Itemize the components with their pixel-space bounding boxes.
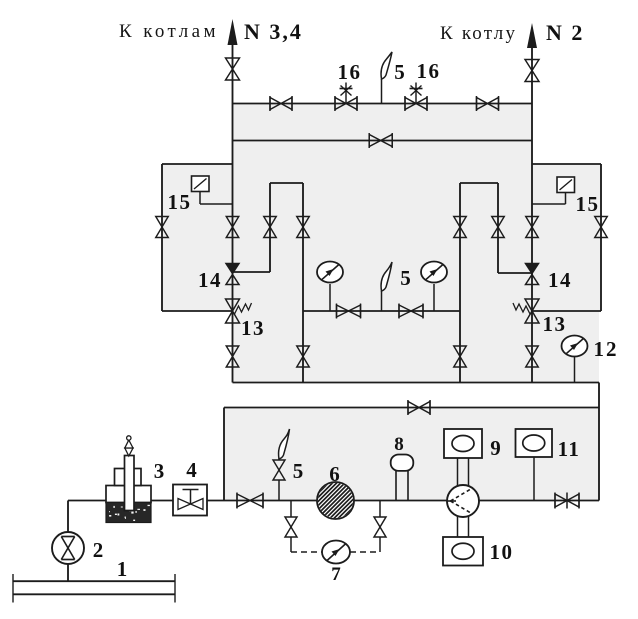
pipe riser to boilers N3,4 (upper) bbox=[232, 58, 234, 104]
right downcomer pipe bbox=[598, 383, 600, 501]
right loop bottom pipe bbox=[532, 310, 601, 312]
closed valve on bottom main right bbox=[555, 493, 579, 509]
dp gauge right impulse line bbox=[350, 551, 380, 553]
right riser pipe middle bbox=[531, 104, 533, 383]
dp gauge left impulse line bbox=[291, 551, 322, 553]
instrument 15 left bbox=[192, 176, 233, 204]
right branch top pipe bbox=[460, 182, 498, 184]
dp gauge right tap pipe bbox=[374, 501, 386, 553]
check valve 14 right bbox=[526, 264, 539, 285]
label 13 left bbox=[241, 316, 265, 340]
left branch riser pipe bbox=[269, 183, 271, 272]
svg-text:10: 10 bbox=[490, 540, 514, 564]
label К котлу bbox=[440, 23, 517, 44]
right loop top pipe bbox=[532, 163, 601, 165]
valve on middle line left bbox=[337, 304, 361, 319]
svg-text:15: 15 bbox=[576, 192, 600, 216]
left loop top pipe bbox=[162, 163, 233, 165]
svg-text:16: 16 bbox=[338, 60, 362, 84]
svg-text:4: 4 bbox=[186, 458, 198, 482]
bottom rect left pipe bbox=[223, 408, 225, 501]
background shading of enclosed regions bbox=[162, 104, 601, 501]
pressure gauge left bbox=[317, 262, 343, 283]
flow arrow to boilers N3,4 bbox=[228, 19, 238, 58]
right loop vertical pipe bbox=[600, 164, 602, 311]
valve on left riser lower bbox=[226, 346, 239, 367]
label 6 bbox=[329, 462, 341, 486]
instrument 11 stem bbox=[533, 457, 535, 501]
valve on second header bbox=[369, 133, 392, 148]
label 12 bbox=[594, 337, 619, 361]
label 9 bbox=[490, 436, 502, 460]
right branch down pipe bbox=[497, 183, 499, 273]
svg-text:11: 11 bbox=[558, 437, 581, 461]
label N 3,4 bbox=[244, 19, 303, 44]
label 2 bbox=[93, 538, 105, 562]
pressure gauge right bbox=[421, 262, 447, 283]
label 1 bbox=[117, 557, 129, 581]
filter 6 bbox=[283, 481, 389, 521]
pipe pump to tank bbox=[67, 565, 69, 582]
svg-text:16: 16 bbox=[417, 59, 441, 83]
thermometer stem middle bbox=[381, 291, 383, 311]
valve on right branch riser bbox=[492, 217, 505, 238]
pipe riser to boiler N2 (upper) bbox=[531, 60, 533, 104]
svg-text:8: 8 bbox=[394, 434, 405, 455]
motor valve 16 right bbox=[405, 83, 427, 112]
svg-text:5: 5 bbox=[400, 266, 412, 290]
instrument box 10 bbox=[443, 537, 483, 566]
second header pipe bbox=[233, 140, 533, 142]
svg-text:12: 12 bbox=[594, 337, 619, 361]
valve on top header right bbox=[477, 96, 499, 111]
svg-text:3: 3 bbox=[154, 459, 166, 483]
thermometer stub bottom bbox=[273, 458, 285, 501]
left riser pipe middle bbox=[232, 104, 234, 383]
instrument box 11 bbox=[516, 429, 553, 457]
flow arrow to boiler N2 bbox=[527, 23, 537, 60]
label 11 bbox=[558, 437, 581, 461]
label 5 middle bbox=[400, 266, 412, 290]
label 5 bottom bbox=[293, 459, 305, 483]
label 13 right bbox=[543, 312, 567, 336]
left gauge branch pipe bbox=[302, 183, 304, 383]
label 4 bbox=[186, 458, 198, 482]
pump 2 bbox=[52, 532, 84, 564]
label 5 top bbox=[394, 60, 406, 84]
label 8 bbox=[394, 434, 405, 455]
pipe pump to main line bbox=[67, 501, 69, 533]
svg-text:N 2: N 2 bbox=[546, 20, 584, 45]
tank 1 bbox=[13, 574, 175, 603]
valve on right gauge branch upper bbox=[454, 217, 467, 238]
flow meter bbox=[447, 485, 479, 517]
right branch riser pipe bbox=[459, 183, 461, 311]
svg-text:1: 1 bbox=[117, 557, 129, 581]
svg-text:5: 5 bbox=[394, 60, 406, 84]
motor valve 16 left bbox=[335, 83, 357, 112]
svg-text:13: 13 bbox=[241, 316, 265, 340]
svg-text:2: 2 bbox=[93, 538, 105, 562]
label 7 bbox=[331, 564, 342, 585]
valve on left loop bbox=[156, 217, 169, 238]
instrument box 9 bbox=[444, 429, 482, 458]
sensor 8 bbox=[391, 455, 414, 501]
thermometer 5 flag bottom bbox=[279, 429, 290, 459]
svg-text:15: 15 bbox=[168, 190, 192, 214]
dp gauge 7 bbox=[322, 541, 350, 564]
label 10 bbox=[490, 540, 514, 564]
valve on left riser bbox=[226, 217, 239, 238]
bottom main pipe bbox=[68, 500, 599, 502]
pressure gauge 12 bbox=[562, 336, 588, 357]
middle instrument pipe bbox=[303, 310, 460, 312]
thermometer 5 flag on top header bbox=[381, 52, 392, 79]
valve on right gauge branch lower bbox=[454, 311, 467, 383]
valve on bottom main line left bbox=[237, 493, 263, 509]
top header pipe bbox=[233, 103, 533, 105]
svg-text:К котлам: К котлам bbox=[119, 21, 219, 42]
pipe from branch to right riser bbox=[498, 272, 532, 274]
pressure gauge 12 stem bbox=[574, 356, 576, 383]
valve on right loop bbox=[595, 217, 608, 238]
collector pipe bbox=[233, 382, 600, 384]
svg-text:6: 6 bbox=[329, 462, 341, 486]
valve on bottom bypass header bbox=[408, 400, 430, 415]
label 3 bbox=[154, 459, 166, 483]
pressure gauge left stem bbox=[329, 284, 331, 311]
mixing heater 3 bbox=[106, 436, 151, 523]
pressure gauge right stem bbox=[433, 284, 435, 311]
valve on left gauge branch upper bbox=[297, 217, 310, 238]
check valve 14 left bbox=[226, 264, 239, 285]
svg-text:13: 13 bbox=[543, 312, 567, 336]
valve on right riser bbox=[526, 217, 539, 238]
svg-text:5: 5 bbox=[293, 459, 305, 483]
instrument 15 right bbox=[532, 177, 575, 204]
label 15 left bbox=[168, 190, 192, 214]
safety valve 13 right bbox=[513, 299, 539, 323]
label 15 right bbox=[576, 192, 600, 216]
valve on right riser top bbox=[525, 60, 539, 82]
valve on middle line right bbox=[399, 304, 423, 319]
svg-text:14: 14 bbox=[548, 268, 572, 292]
pipe from left riser to branch bbox=[233, 271, 271, 273]
valve on left gauge branch lower bbox=[297, 346, 310, 367]
bottom bypass header pipe bbox=[224, 407, 599, 409]
svg-text:К котлу: К котлу bbox=[440, 23, 517, 44]
left loop bottom pipe bbox=[162, 310, 233, 312]
label К котлам bbox=[119, 21, 219, 42]
label 14 right bbox=[548, 268, 572, 292]
valve on left riser top bbox=[226, 58, 240, 80]
svg-text:N 3,4: N 3,4 bbox=[244, 19, 303, 44]
thermometer 5 flag middle bbox=[381, 262, 392, 291]
control valve unit 4 bbox=[173, 485, 207, 516]
label N 2 bbox=[546, 20, 584, 45]
svg-text:9: 9 bbox=[490, 436, 502, 460]
label 14 left bbox=[198, 268, 222, 292]
flow meter lower stems bbox=[458, 516, 469, 537]
valve on left branch riser bbox=[264, 217, 277, 238]
svg-text:7: 7 bbox=[331, 564, 342, 585]
svg-text:14: 14 bbox=[198, 268, 222, 292]
left branch top pipe bbox=[270, 182, 303, 184]
thermometer well stem on top header bbox=[381, 79, 383, 104]
dp gauge left tap pipe bbox=[285, 501, 297, 553]
left loop vertical pipe bbox=[161, 164, 163, 311]
safety valve 13 left bbox=[226, 299, 252, 323]
flow meter upper stems bbox=[458, 458, 469, 487]
valve on top header left bbox=[270, 96, 292, 111]
label 16 left bbox=[338, 60, 362, 84]
label 16 right bbox=[417, 59, 441, 83]
valve on right riser lower bbox=[526, 346, 539, 367]
